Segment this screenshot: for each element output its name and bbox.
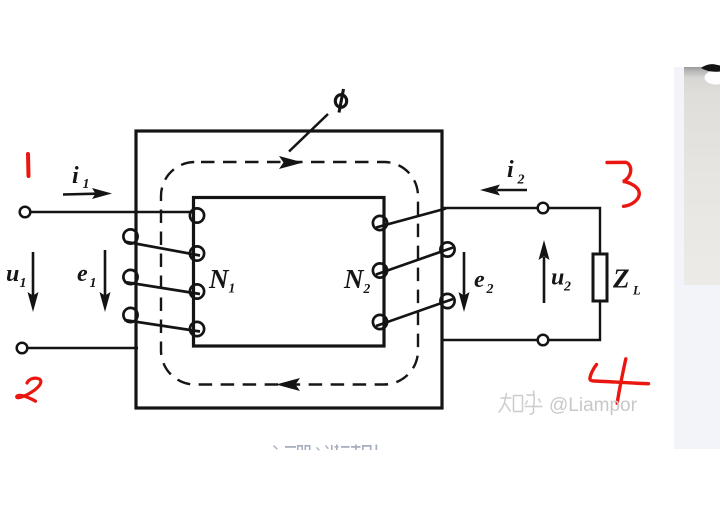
core outer edge bbox=[136, 131, 442, 408]
terminal 3 bbox=[538, 203, 549, 214]
sidebar card bbox=[684, 67, 720, 285]
red annotation 2 bbox=[17, 378, 41, 401]
sidebar background bbox=[674, 67, 720, 449]
svg-text:i: i bbox=[507, 157, 514, 183]
wire: secondary top to load bbox=[443, 208, 600, 254]
red annotation 3 bbox=[607, 162, 639, 206]
svg-text:1: 1 bbox=[90, 276, 97, 291]
svg-text:@Liampor: @Liampor bbox=[549, 395, 638, 416]
label e1 + arrow bbox=[77, 250, 111, 312]
red annotation 4 bbox=[590, 359, 649, 403]
wire: secondary bottom to load bbox=[443, 301, 600, 340]
phi pointer line bbox=[289, 114, 328, 152]
svg-text:2: 2 bbox=[563, 280, 571, 295]
caption (cropped) bbox=[273, 445, 377, 451]
flux label phi bbox=[335, 89, 346, 113]
svg-text:Z: Z bbox=[612, 264, 630, 294]
sidebar white blob bbox=[705, 71, 720, 85]
red annotation 1 bbox=[26, 154, 31, 176]
terminal 2 bbox=[17, 343, 28, 354]
svg-text:1: 1 bbox=[83, 177, 90, 192]
label N1 bbox=[208, 264, 235, 296]
secondary winding N2 bbox=[373, 209, 455, 330]
label i2 + arrow bbox=[480, 157, 527, 196]
svg-text:2: 2 bbox=[363, 281, 371, 296]
label u1 + arrow bbox=[6, 252, 39, 312]
svg-text:u: u bbox=[6, 261, 19, 287]
svg-text:N: N bbox=[208, 264, 230, 294]
svg-text:2: 2 bbox=[517, 173, 525, 188]
svg-text:e: e bbox=[474, 267, 485, 293]
wire: terminal 1 to primary bbox=[30, 211, 194, 213]
label e2 + arrow bbox=[459, 252, 494, 312]
label u2 + arrow bbox=[539, 240, 572, 303]
label Z_L bbox=[612, 264, 641, 298]
sidebar dark blob bbox=[701, 64, 720, 72]
svg-text:1: 1 bbox=[229, 281, 236, 296]
primary winding N1 bbox=[123, 208, 204, 336]
flux path (dashed) bbox=[161, 162, 418, 385]
flux arrow top bbox=[279, 156, 303, 169]
svg-text:u: u bbox=[551, 265, 564, 291]
svg-text:2: 2 bbox=[486, 282, 494, 297]
load Z_L bbox=[593, 254, 607, 301]
svg-text:e: e bbox=[77, 261, 88, 287]
svg-text:N: N bbox=[343, 264, 365, 294]
terminal 4 bbox=[538, 335, 549, 346]
label N2 bbox=[343, 264, 371, 296]
svg-text:L: L bbox=[632, 284, 641, 298]
wire: terminal 2 to core bbox=[27, 347, 138, 349]
terminal 1 bbox=[20, 207, 31, 218]
watermark bbox=[499, 391, 638, 417]
svg-text:i: i bbox=[72, 163, 79, 189]
label i1 + arrow bbox=[63, 163, 112, 199]
core inner edge bbox=[194, 198, 385, 347]
flux arrow bottom bbox=[276, 378, 300, 391]
svg-text:1: 1 bbox=[20, 276, 27, 291]
